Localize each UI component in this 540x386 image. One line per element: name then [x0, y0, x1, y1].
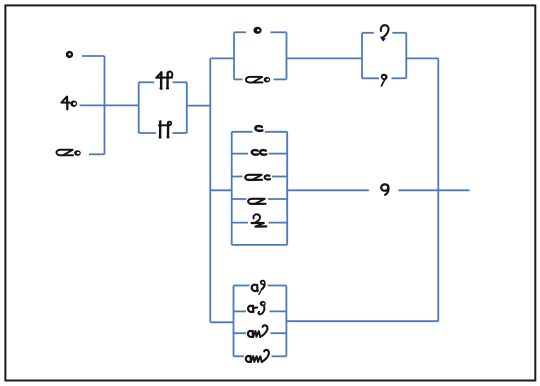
wire: stub to node czo (left) [89, 153, 105, 155]
wire: B1 to B2 link [287, 57, 363, 59]
wire: M bracket right vertical [286, 132, 288, 245]
wire: BB item4 stub right [272, 355, 287, 357]
wire: BB item3 stub left [234, 332, 247, 334]
wire: B1 top stub left [234, 31, 246, 33]
wire: L2 bracket left vertical [138, 82, 140, 133]
wire: B2 left vertical [361, 33, 363, 79]
wire: M item5 stub left [232, 222, 248, 224]
wire: M item2 stub left [232, 153, 248, 155]
wire: BB item2 stub right [270, 310, 287, 312]
wire: BB item2 stub left [234, 310, 247, 312]
wire: B1 left vertical [233, 32, 235, 79]
wire: L2 bottom stub left [139, 132, 156, 134]
wire: bottom branch input [210, 321, 233, 323]
node 9 [381, 184, 388, 194]
wire: B2 output to right trunk [406, 57, 438, 59]
wire: M item2 stub right [269, 153, 288, 155]
wire: B1 right vertical [286, 32, 288, 79]
node ag (bottom item 1) [252, 280, 266, 295]
wire: input line from 4o through L1 to L2 bracket [80, 104, 139, 106]
wire: L2 bracket right vertical [186, 82, 188, 133]
node cz (middle item 4) [248, 199, 265, 204]
wire: B1 bottom stub right [274, 78, 287, 80]
wire: top branch input [210, 57, 234, 59]
wire: L2 top stub left [139, 81, 154, 83]
node czo (top branch bracket 1 bottom) [246, 77, 270, 83]
wire: middle branch input [210, 189, 231, 191]
node czc (middle item 3) [245, 175, 270, 180]
wire: BB right vertical [285, 286, 287, 357]
wire: right trunk vertical [437, 58, 439, 321]
node 2z (middle item 5) [252, 214, 267, 226]
wire: B2 top stub right [392, 32, 406, 34]
wire: BB item1 stub left [234, 285, 250, 287]
wire: L2 top stub right [173, 81, 187, 83]
wire: M bracket bottom closure [232, 244, 288, 246]
wire: B2 right vertical [405, 33, 407, 79]
node lP (level-2 bottom) [159, 121, 172, 138]
wire: middle output right of 9 [399, 189, 470, 191]
node auw-curl (bottom item 4) [246, 350, 269, 362]
node 2-curl (top branch bracket 2 top) [380, 25, 389, 41]
node aw-curl (bottom item 3) [248, 325, 267, 337]
node czo (left column bottom) [56, 150, 80, 156]
wire: M item3 stub right [272, 176, 287, 178]
wire: M item3 stub left [232, 176, 243, 178]
wire: BB item1 stub right [268, 285, 287, 287]
wire: stub to node o (left) [82, 55, 105, 57]
wire: M item4 stub right [268, 198, 287, 200]
wire: bottom output to right trunk [286, 320, 438, 322]
wire: B2 bottom stub right [392, 77, 407, 79]
wire: main trunk vertical [209, 58, 211, 322]
wire: BB item4 stub left [234, 355, 245, 357]
wire: L2 output to trunk [187, 105, 211, 107]
wire: M bracket left vertical [231, 132, 233, 245]
node 4o (left column middle) [61, 97, 77, 110]
wire: M item1 stub right [265, 131, 287, 133]
wire: M item4 stub left [232, 198, 247, 200]
wire: B2 bottom stub left [362, 77, 379, 79]
node o (left column top) [66, 51, 73, 58]
wire: B2 top stub left [362, 32, 374, 34]
node 4P (level-2 top) [156, 72, 172, 90]
node c (middle item 1) [255, 126, 262, 131]
node x-loop (top branch bracket 2 bottom) [381, 74, 388, 86]
wire: L2 bottom stub right [173, 132, 187, 134]
wire: BB item3 stub right [271, 332, 287, 334]
node o (top branch bracket 1 top) [253, 27, 261, 34]
wire: B1 top stub right [271, 31, 287, 33]
wire: B1 bottom stub left [234, 78, 243, 80]
node cc (middle item 2) [252, 150, 267, 155]
wire: M item5 stub right [269, 222, 288, 224]
node as-curl (bottom item 2) [248, 301, 266, 314]
wire: L1 bracket vertical [104, 56, 106, 154]
wire: middle output left of 9 [287, 189, 369, 191]
wire: M item1 stub left [232, 131, 253, 133]
wire: BB left vertical [233, 286, 235, 357]
